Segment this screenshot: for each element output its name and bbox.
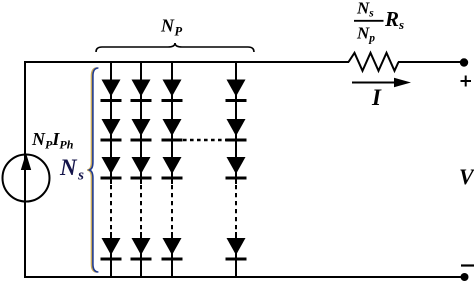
diode D31 xyxy=(162,80,183,103)
diode D12 xyxy=(101,119,122,142)
wire resistor right lead xyxy=(398,61,462,63)
diode D32 xyxy=(162,119,183,142)
diode D33 xyxy=(162,157,183,180)
resistor Rs xyxy=(349,53,399,71)
diode D41 xyxy=(226,80,247,103)
arrow I (current direction) xyxy=(352,78,411,87)
diode D24 xyxy=(131,238,152,261)
diode D34 xyxy=(162,238,183,261)
diode column 4 wire xyxy=(235,62,237,184)
wire col4 lower xyxy=(235,232,237,277)
wire col3 dashed xyxy=(171,185,173,232)
diode D42 xyxy=(226,119,247,142)
diode D44 xyxy=(226,238,247,261)
diode D22 xyxy=(131,119,152,142)
diode column 3 wire xyxy=(171,62,173,184)
wire col1 lower xyxy=(110,232,112,277)
wire dashed horizontal (array continuation) xyxy=(183,139,226,141)
diode D21 xyxy=(131,80,152,103)
wire col2 dashed xyxy=(140,185,142,232)
wire top horizontal xyxy=(25,61,349,63)
brace Np (horizontal, above diode array) xyxy=(96,43,254,52)
label minus xyxy=(461,264,474,266)
svg-text:V: V xyxy=(459,164,474,189)
diode D23 xyxy=(131,157,152,180)
wire bottom horizontal xyxy=(25,276,464,278)
label + xyxy=(461,76,472,87)
diode column 1 wire xyxy=(110,62,112,184)
node terminal bottom right xyxy=(461,273,469,281)
current source I1 xyxy=(3,153,50,202)
wire col2 lower xyxy=(140,232,142,277)
wire col4 dashed xyxy=(235,185,237,232)
diode column 2 wire xyxy=(140,62,142,184)
wire left vertical xyxy=(24,61,26,278)
brace Ns (vertical, left of diode array) xyxy=(87,68,98,272)
label Ns/Np Rs xyxy=(356,0,404,45)
wire col3 lower xyxy=(171,232,173,277)
diode D13 xyxy=(101,157,122,180)
fraction bar xyxy=(354,20,384,22)
wire col1 dashed xyxy=(110,185,112,232)
diode D43 xyxy=(226,157,247,180)
node terminal top right xyxy=(460,58,468,66)
diode D11 xyxy=(101,80,122,103)
svg-text:I: I xyxy=(371,85,382,110)
diode D14 xyxy=(101,238,122,261)
